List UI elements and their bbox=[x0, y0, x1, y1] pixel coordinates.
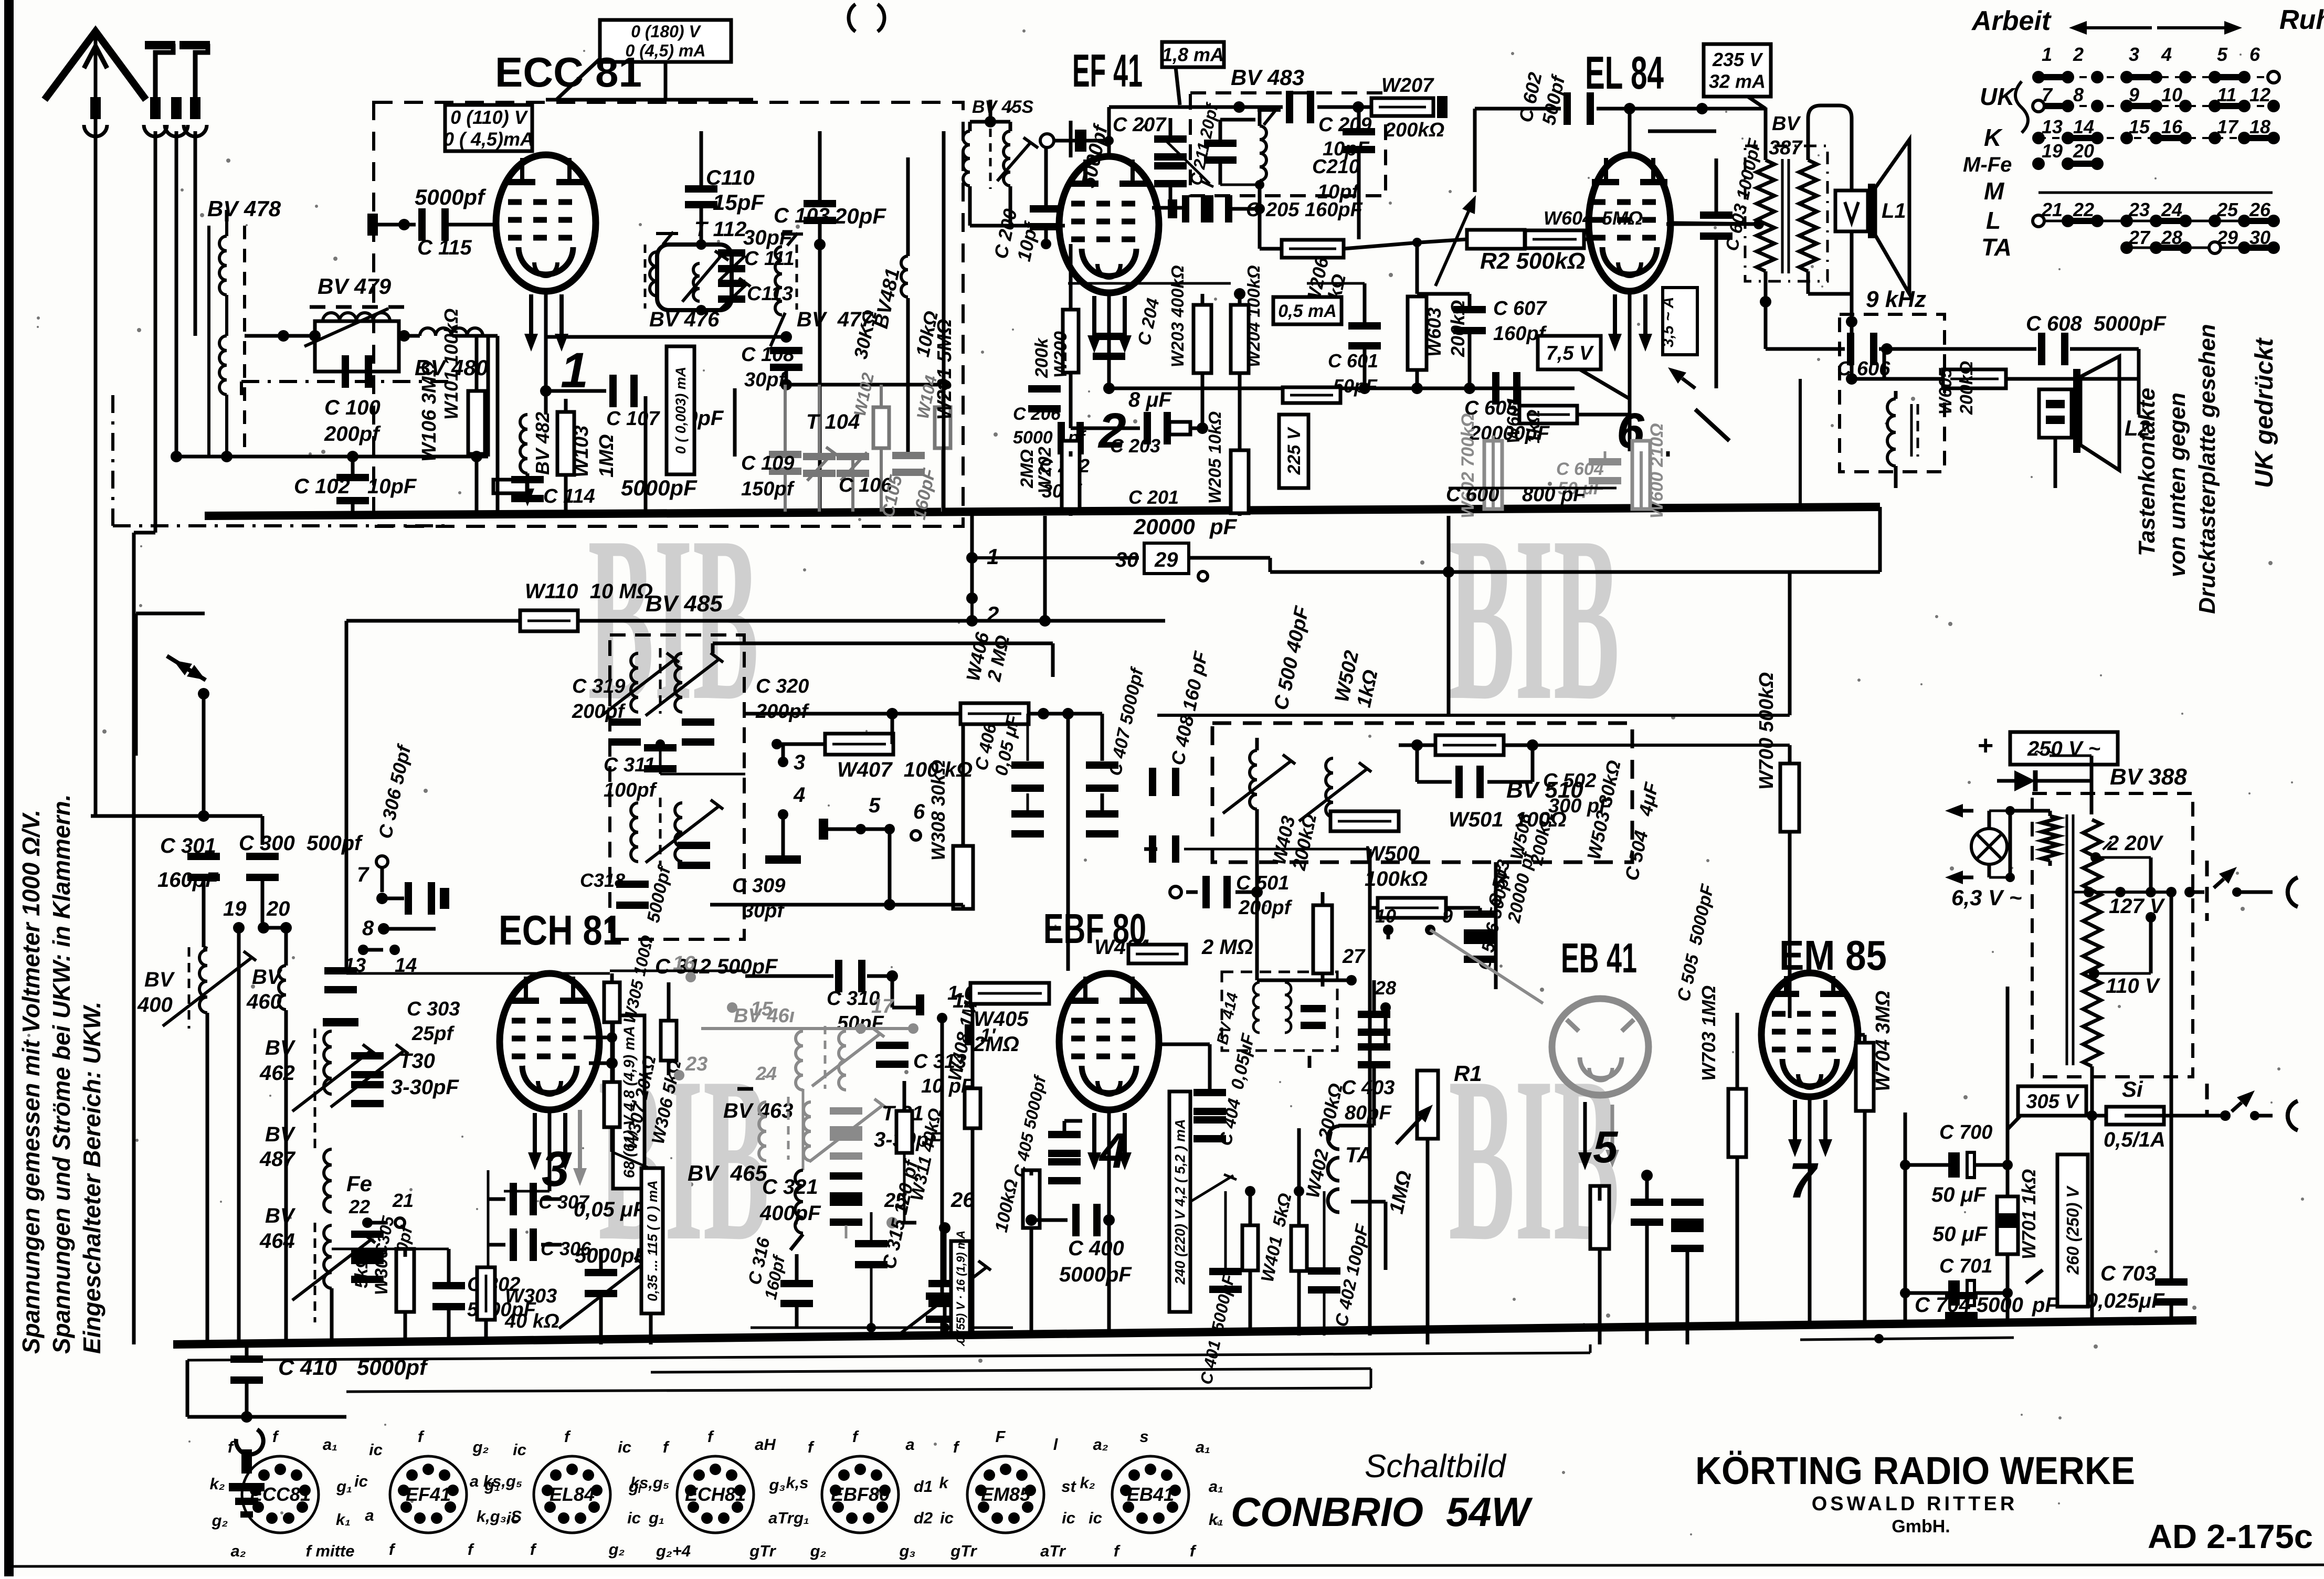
wire bbox=[660, 773, 745, 776]
svg-text:14: 14 bbox=[395, 955, 417, 977]
wire bbox=[2149, 857, 2153, 892]
wire bbox=[971, 1128, 975, 1336]
wire bbox=[867, 974, 892, 978]
wire bbox=[1628, 291, 1632, 451]
contact row M bbox=[2038, 192, 2273, 194]
wire bbox=[781, 744, 785, 762]
wire bbox=[345, 621, 348, 973]
wire bbox=[1478, 908, 1482, 912]
svg-text:30pF: 30pF bbox=[743, 226, 793, 249]
resistor W600 210 gray bbox=[1632, 441, 1650, 509]
wire bbox=[1989, 876, 2010, 879]
svg-text:C 403: C 403 bbox=[1341, 1077, 1395, 1099]
svg-text:L1: L1 bbox=[1882, 199, 1906, 222]
trimmer T30 bbox=[351, 1052, 384, 1059]
svg-text:ECC 81: ECC 81 bbox=[495, 49, 642, 96]
wire bbox=[1748, 97, 1766, 109]
svg-text:1: 1 bbox=[2042, 44, 2052, 65]
wire bbox=[245, 1383, 249, 1417]
wire bbox=[1258, 209, 1262, 242]
svg-text:16: 16 bbox=[2161, 116, 2183, 137]
svg-text:26: 26 bbox=[2249, 199, 2271, 220]
wire bbox=[404, 1249, 407, 1257]
wire bbox=[1338, 1124, 1374, 1128]
svg-text:W103: W103 bbox=[571, 426, 593, 478]
wire bbox=[610, 1127, 614, 1152]
wire bbox=[404, 1312, 407, 1344]
wire bbox=[818, 131, 822, 203]
svg-text:0 ( 4,5)mA: 0 ( 4,5)mA bbox=[443, 128, 534, 150]
gray line to EB41 bbox=[1430, 930, 1543, 1003]
svg-text:5: 5 bbox=[869, 794, 881, 817]
wire bbox=[1107, 107, 1111, 157]
wire bbox=[2074, 891, 2089, 894]
svg-text:W300: W300 bbox=[372, 1248, 392, 1295]
tube socket EB41 bbox=[1112, 1456, 1189, 1533]
capacitor C109 150pF gray bbox=[769, 451, 801, 458]
svg-text:13: 13 bbox=[2042, 116, 2063, 137]
tube V7 EM85 bbox=[1761, 973, 1858, 1097]
wire bbox=[1054, 139, 1075, 143]
svg-text:BV: BV bbox=[265, 1204, 296, 1227]
svg-text:W207: W207 bbox=[1381, 75, 1434, 97]
wire bbox=[367, 948, 391, 952]
svg-text:W603: W603 bbox=[1423, 308, 1445, 357]
wire bbox=[1863, 1035, 1867, 1042]
wire bbox=[2255, 1114, 2273, 1118]
svg-text:W500: W500 bbox=[1365, 842, 1420, 865]
wire bbox=[1879, 347, 2036, 351]
svg-text:g₂: g₂ bbox=[472, 1438, 489, 1456]
wire bbox=[487, 336, 490, 457]
wire bbox=[475, 454, 479, 512]
wire bbox=[2090, 1116, 2094, 1322]
svg-text:BV 483: BV 483 bbox=[1231, 65, 1304, 90]
capacitor C307 bbox=[510, 1183, 517, 1215]
contact row L 21-26 bbox=[2038, 220, 2274, 222]
svg-text:C 320: C 320 bbox=[756, 675, 809, 697]
svg-text:C 502: C 502 bbox=[1543, 770, 1596, 792]
wire bbox=[1157, 1043, 1210, 1046]
wire bbox=[649, 1175, 653, 1189]
svg-text:d1: d1 bbox=[914, 1477, 933, 1496]
wire bbox=[1788, 745, 1792, 764]
wire bbox=[1988, 864, 1991, 877]
wire bbox=[795, 1254, 799, 1280]
contact row UK 1-6 bbox=[2038, 76, 2274, 78]
coil cluster BV462 bbox=[314, 1029, 316, 1149]
wire bbox=[496, 367, 500, 512]
wire bbox=[1674, 223, 1759, 224]
capacitor C311 100pF bbox=[644, 744, 677, 751]
coil BV476 inner bbox=[693, 263, 700, 301]
svg-text:EF41: EF41 bbox=[406, 1483, 451, 1505]
wire bbox=[2205, 861, 2209, 921]
wire bbox=[484, 1320, 488, 1344]
svg-text:5000pF: 5000pF bbox=[621, 475, 698, 500]
wire bbox=[261, 816, 265, 845]
wire bbox=[1344, 242, 1420, 249]
wire bbox=[1086, 139, 1109, 143]
dash box BV388 bbox=[2032, 793, 2193, 1077]
wire bbox=[1257, 979, 1351, 982]
svg-text:17: 17 bbox=[2217, 116, 2239, 137]
wire bbox=[1363, 349, 1367, 388]
svg-text:19: 19 bbox=[2042, 140, 2063, 162]
wire bbox=[1449, 570, 1880, 574]
wire bbox=[1144, 847, 1157, 851]
label box 7,5V bbox=[1538, 336, 1601, 369]
svg-text:BV: BV bbox=[252, 966, 283, 989]
capacitor C200 10pF bbox=[1030, 205, 1062, 213]
wire bbox=[942, 131, 946, 385]
wire bbox=[1628, 109, 1632, 155]
wire bbox=[664, 61, 668, 101]
wire bbox=[1069, 121, 1073, 157]
diode bbox=[2014, 770, 2035, 791]
wire bbox=[1249, 1270, 1252, 1336]
svg-text:C 703: C 703 bbox=[2100, 1262, 2157, 1285]
svg-text:9: 9 bbox=[1442, 905, 1453, 927]
capacitor C204 pair bbox=[1154, 135, 1187, 143]
wire bbox=[1417, 292, 1470, 296]
wire bbox=[202, 694, 206, 816]
resistor W605 200k bbox=[1943, 369, 2006, 388]
tube V2 EF41 bbox=[1059, 156, 1159, 293]
wire bbox=[134, 531, 155, 535]
wire bbox=[1387, 930, 1390, 939]
svg-text:225 V: 225 V bbox=[1284, 426, 1304, 475]
wire bbox=[1473, 109, 1477, 192]
capacitor C403 80pF bbox=[1358, 1011, 1390, 1018]
svg-text:25: 25 bbox=[2216, 199, 2238, 220]
svg-text:gTr: gTr bbox=[749, 1542, 776, 1560]
svg-text:0 ( 0,003) mA: 0 ( 0,003) mA bbox=[673, 367, 689, 454]
svg-text:EL84: EL84 bbox=[550, 1483, 595, 1505]
svg-text:260 (250) V: 260 (250) V bbox=[2064, 1185, 2083, 1275]
wire bbox=[1351, 1200, 1386, 1204]
resistor W501 100 bbox=[1330, 811, 1399, 831]
capacitor C105 gray bbox=[892, 452, 925, 459]
wire bbox=[382, 897, 404, 900]
capacitor C205 160pF bbox=[1168, 199, 1177, 218]
wire bbox=[1297, 1270, 1301, 1336]
svg-text:k₁: k₁ bbox=[1209, 1510, 1223, 1529]
svg-text:2: 2 bbox=[986, 602, 999, 627]
wire bbox=[906, 157, 910, 256]
wire bbox=[91, 814, 262, 818]
potentiometer R2 500k bbox=[1467, 230, 1525, 249]
wire bbox=[2170, 892, 2173, 1279]
wire bbox=[786, 383, 944, 387]
wire bbox=[381, 868, 384, 892]
svg-text:400pF: 400pF bbox=[759, 1202, 821, 1225]
svg-text:150pf: 150pf bbox=[741, 478, 795, 500]
svg-text:W303: W303 bbox=[505, 1285, 557, 1307]
mains jack top bbox=[2288, 877, 2298, 907]
wire bbox=[284, 1010, 288, 1344]
wire bbox=[487, 1170, 490, 1267]
wire speaker return bbox=[1846, 373, 1857, 385]
svg-text:8 μF: 8 μF bbox=[1128, 388, 1172, 411]
svg-text:22: 22 bbox=[348, 1196, 370, 1217]
wire bbox=[1169, 118, 1172, 137]
wire bbox=[970, 120, 1010, 124]
wire bbox=[1494, 862, 1498, 989]
wire bbox=[546, 335, 786, 339]
svg-text:W204 100kΩ: W204 100kΩ bbox=[1244, 265, 1263, 367]
antenna plug 2 bbox=[182, 46, 208, 97]
wire bbox=[2048, 861, 2052, 866]
capacitor C607 160pF bbox=[1453, 306, 1486, 313]
wire bbox=[2137, 379, 2140, 399]
svg-text:BV: BV bbox=[265, 1123, 296, 1146]
svg-text:s: s bbox=[1139, 1427, 1148, 1446]
dash box BV510 bbox=[1212, 723, 1632, 862]
gray trimmer T31 bbox=[830, 1107, 862, 1115]
svg-text:C210: C210 bbox=[1312, 156, 1360, 178]
svg-text:ic: ic bbox=[513, 1440, 526, 1459]
svg-text:C 311: C 311 bbox=[604, 754, 656, 776]
wire bbox=[1030, 1170, 1033, 1175]
svg-text:7,5 V: 7,5 V bbox=[1546, 342, 1594, 364]
gray capacitor C313 10pF bbox=[876, 1042, 909, 1049]
svg-text:W200: W200 bbox=[1051, 331, 1071, 378]
label box 260(250)V bbox=[2057, 1154, 2088, 1307]
speaker L1 bbox=[1835, 190, 1868, 231]
capacitor C406 0,05uF bbox=[1011, 761, 1044, 769]
wire bbox=[1189, 556, 1270, 560]
node 2 bbox=[966, 592, 978, 604]
svg-text:UK: UK bbox=[1980, 83, 2016, 110]
tube socket ECH81 bbox=[677, 1456, 754, 1533]
tube socket EF41 bbox=[390, 1456, 467, 1533]
wire bbox=[1029, 712, 1102, 716]
wire bbox=[1447, 572, 1451, 715]
svg-text:C 301: C 301 bbox=[160, 834, 216, 857]
svg-text:ic: ic bbox=[940, 1509, 954, 1527]
resistor W401 5k bbox=[1242, 1225, 1258, 1270]
wire bbox=[1799, 379, 1802, 507]
coil BV400 bbox=[188, 947, 191, 1029]
label box 68(61)V bbox=[613, 1015, 645, 1189]
svg-text:5: 5 bbox=[1593, 1122, 1619, 1172]
wire bbox=[1030, 1228, 1033, 1336]
capacitor C606 bbox=[1847, 333, 1854, 365]
svg-text:C 203: C 203 bbox=[1110, 435, 1160, 457]
label box 0,5mA bbox=[1273, 297, 1341, 324]
wire bbox=[968, 186, 972, 226]
svg-text:Schaltbild: Schaltbild bbox=[1365, 1448, 1507, 1485]
svg-text:EB41: EB41 bbox=[1127, 1483, 1174, 1505]
punch hole top bbox=[849, 4, 855, 31]
ratio coil primary bbox=[1250, 750, 1257, 809]
svg-text:5000: 5000 bbox=[1013, 428, 1053, 448]
wire bbox=[1878, 507, 1882, 572]
svg-text:BV 476: BV 476 bbox=[649, 308, 720, 331]
wire bbox=[1123, 556, 1144, 560]
svg-text:C 111: C 111 bbox=[744, 248, 795, 270]
coil BV487 bbox=[324, 1149, 332, 1212]
svg-text:Drucktasterplatte gesehen: Drucktasterplatte gesehen bbox=[2194, 324, 2220, 614]
svg-text:k: k bbox=[939, 1474, 949, 1492]
wire bbox=[903, 1153, 906, 1223]
capacitor C604 50uF gray bbox=[1589, 458, 1621, 465]
wire bbox=[667, 982, 671, 1021]
wire bbox=[1447, 516, 1451, 572]
wire bbox=[781, 814, 785, 855]
svg-text:460: 460 bbox=[246, 990, 282, 1013]
svg-text:Spannungen und Ströme bei UKW:: Spannungen und Ströme bei UKW: in Klamme… bbox=[48, 794, 75, 1354]
tube V5 EBF80 bbox=[1059, 973, 1159, 1110]
svg-text:Si: Si bbox=[2122, 1077, 2143, 1101]
wire bbox=[1009, 122, 1012, 131]
svg-text:160pF: 160pF bbox=[157, 868, 219, 892]
wire bbox=[556, 59, 600, 100]
wire bbox=[2092, 1114, 2106, 1118]
svg-text:a: a bbox=[905, 1435, 914, 1454]
svg-text:aTr: aTr bbox=[1040, 1542, 1066, 1560]
svg-text:EB 41: EB 41 bbox=[1561, 935, 1637, 981]
capacitor C319 200pF bbox=[608, 718, 641, 726]
wire bbox=[1487, 780, 1533, 784]
svg-text:AD 2-175с: AD 2-175с bbox=[2148, 1518, 2313, 1555]
wire bbox=[187, 1415, 346, 1419]
svg-text:C 109: C 109 bbox=[741, 452, 794, 474]
svg-text:387: 387 bbox=[1769, 137, 1803, 159]
gray arrow ECH81 bbox=[578, 1110, 582, 1168]
svg-text:R2 500kΩ: R2 500kΩ bbox=[1480, 248, 1586, 274]
svg-text:C 319: C 319 bbox=[572, 675, 625, 697]
wire bbox=[1064, 1119, 1082, 1123]
svg-text:2̴4: 2̴4 bbox=[755, 1063, 777, 1084]
coil BV478 bbox=[209, 221, 227, 457]
svg-text:0,5/1A: 0,5/1A bbox=[2104, 1128, 2165, 1151]
label box 225V bbox=[1279, 415, 1308, 488]
tube socket EL84 bbox=[534, 1456, 610, 1533]
wire bbox=[1169, 185, 1172, 208]
svg-text:W202: W202 bbox=[1035, 447, 1055, 493]
wire bbox=[2164, 1114, 2225, 1118]
trimmer C106 gray bbox=[837, 453, 869, 460]
wire bbox=[2138, 399, 2140, 415]
svg-text:C 604: C 604 bbox=[1556, 459, 1604, 479]
capacitor C301 160pF bbox=[187, 853, 220, 860]
wire bbox=[1788, 572, 1792, 627]
svg-text:W600 210Ω: W600 210Ω bbox=[1647, 423, 1667, 518]
wire bbox=[132, 533, 136, 1344]
dash-dot section border top-left bbox=[111, 395, 114, 526]
svg-text:L: L bbox=[1986, 207, 2001, 234]
svg-text:g₁: g₁ bbox=[793, 1509, 809, 1527]
wire bbox=[1101, 714, 1104, 761]
svg-text:BV: BV bbox=[144, 968, 175, 991]
wire bbox=[649, 1257, 653, 1344]
svg-text:28: 28 bbox=[1375, 977, 1396, 999]
resistor W104 10k gray bbox=[935, 407, 950, 448]
contact 11 bbox=[965, 1024, 973, 1045]
wire bbox=[1580, 369, 1630, 399]
svg-text:0,05 μF: 0,05 μF bbox=[574, 1198, 647, 1221]
svg-text:W106 3MΩ: W106 3MΩ bbox=[418, 361, 440, 462]
gray wire row bbox=[701, 1027, 913, 1030]
wire bbox=[1736, 1157, 1739, 1328]
tube V4 ECH81 bbox=[500, 973, 599, 1110]
wire bbox=[599, 1249, 603, 1270]
antenna terminal pins bbox=[90, 97, 101, 119]
tuning cap main bbox=[926, 1292, 958, 1300]
svg-text:6,3 V ~: 6,3 V ~ bbox=[1951, 885, 2022, 910]
wire bbox=[488, 1243, 505, 1247]
capacitor C305 50pf bbox=[351, 1231, 384, 1238]
svg-text:464: 464 bbox=[259, 1230, 295, 1253]
coil BV464 bbox=[314, 1223, 316, 1322]
wire bbox=[2006, 377, 2139, 381]
svg-text:10: 10 bbox=[2161, 84, 2182, 105]
svg-text:W605: W605 bbox=[1936, 367, 1956, 415]
svg-text:C 206: C 206 bbox=[1013, 404, 1061, 424]
capacitor C400 5000pF bbox=[1072, 1204, 1080, 1236]
wire bbox=[447, 1310, 451, 1344]
svg-text:d2: d2 bbox=[914, 1509, 933, 1527]
wire bbox=[1808, 1097, 1812, 1322]
wire bbox=[1686, 1252, 1689, 1344]
wire bbox=[1051, 643, 1055, 677]
wire bbox=[1426, 1069, 1430, 1073]
svg-text:1kΩ: 1kΩ bbox=[1524, 410, 1544, 443]
wire bbox=[204, 947, 207, 949]
wire bbox=[651, 1369, 1371, 1372]
svg-text:3-30pF: 3-30pF bbox=[391, 1076, 459, 1099]
wire bbox=[1974, 1291, 2008, 1295]
svg-text:200k: 200k bbox=[1032, 337, 1052, 378]
antenna plug 1 bbox=[147, 46, 173, 97]
wire bbox=[371, 1221, 395, 1225]
wire bbox=[1270, 570, 1449, 574]
wire bbox=[745, 712, 976, 716]
svg-text:9 kHz: 9 kHz bbox=[1866, 287, 1926, 312]
svg-text:T 104: T 104 bbox=[806, 410, 860, 433]
wire bbox=[1176, 67, 1180, 105]
wire bbox=[1220, 184, 1260, 186]
wire bbox=[818, 221, 822, 512]
coil BV460 bbox=[279, 966, 286, 1010]
svg-text:von unten gegen: von unten gegen bbox=[2164, 393, 2190, 577]
wire bbox=[2089, 891, 2120, 894]
antenna bbox=[45, 31, 146, 131]
svg-text:K: K bbox=[1984, 124, 2003, 151]
wire bbox=[2010, 809, 2050, 813]
wire bbox=[1468, 294, 1472, 307]
wire bbox=[1258, 181, 1262, 208]
svg-text:EM 85: EM 85 bbox=[1779, 932, 1887, 979]
wire bbox=[1997, 779, 2014, 783]
wire bbox=[1255, 829, 1259, 980]
capacitor C204b bbox=[1093, 333, 1125, 340]
wire bbox=[1220, 118, 1255, 122]
wire bbox=[89, 814, 93, 818]
wire bbox=[777, 743, 892, 746]
transformer BV387 bbox=[1745, 146, 1827, 281]
tube V1 ECC81 bbox=[496, 155, 596, 291]
svg-text:20: 20 bbox=[2073, 140, 2094, 162]
resistor W200 200k bbox=[1063, 310, 1079, 373]
wire bbox=[1883, 349, 1886, 378]
svg-text:30pf: 30pf bbox=[744, 369, 787, 391]
svg-text:Arbeit: Arbeit bbox=[1971, 6, 2052, 36]
svg-text:3: 3 bbox=[2129, 44, 2139, 65]
wire bbox=[970, 598, 974, 621]
